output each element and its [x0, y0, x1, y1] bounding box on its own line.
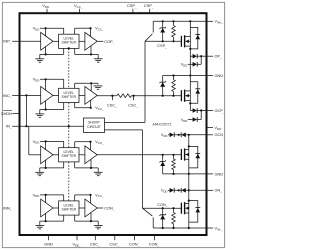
svg-text:GND: GND: [44, 242, 53, 247]
svg-text:CIRCUIT: CIRCUIT: [87, 125, 101, 129]
svg-text:GND: GND: [215, 73, 224, 78]
svg-text:SHIFTER: SHIFTER: [62, 154, 77, 158]
svg-text:SHIFTER: SHIFTER: [62, 95, 77, 99]
svg-text:SHIFTER: SHIFTER: [62, 207, 77, 211]
svg-text:SHIFTER: SHIFTER: [62, 41, 77, 45]
svg-text:MAX15071: MAX15071: [153, 121, 172, 126]
svg-text:GND: GND: [215, 171, 224, 176]
svg-text:SHDN: SHDN: [1, 111, 12, 116]
